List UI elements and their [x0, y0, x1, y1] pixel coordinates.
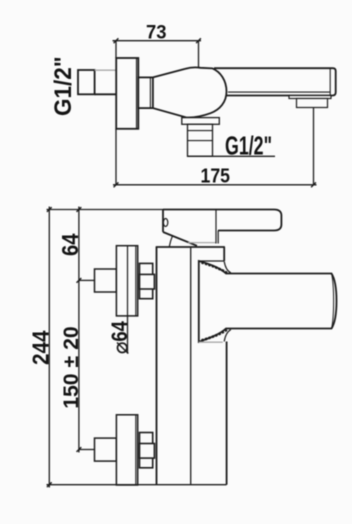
- svg-text:G1/2": G1/2": [225, 133, 272, 161]
- svg-text:150 ± 20: 150 ± 20: [59, 326, 83, 409]
- svg-text:175: 175: [201, 166, 231, 188]
- svg-text:G1/2": G1/2": [50, 57, 77, 117]
- svg-text:64: 64: [107, 321, 132, 342]
- svg-text:64: 64: [57, 233, 83, 256]
- svg-text:244: 244: [28, 330, 54, 365]
- svg-text:73: 73: [146, 22, 167, 44]
